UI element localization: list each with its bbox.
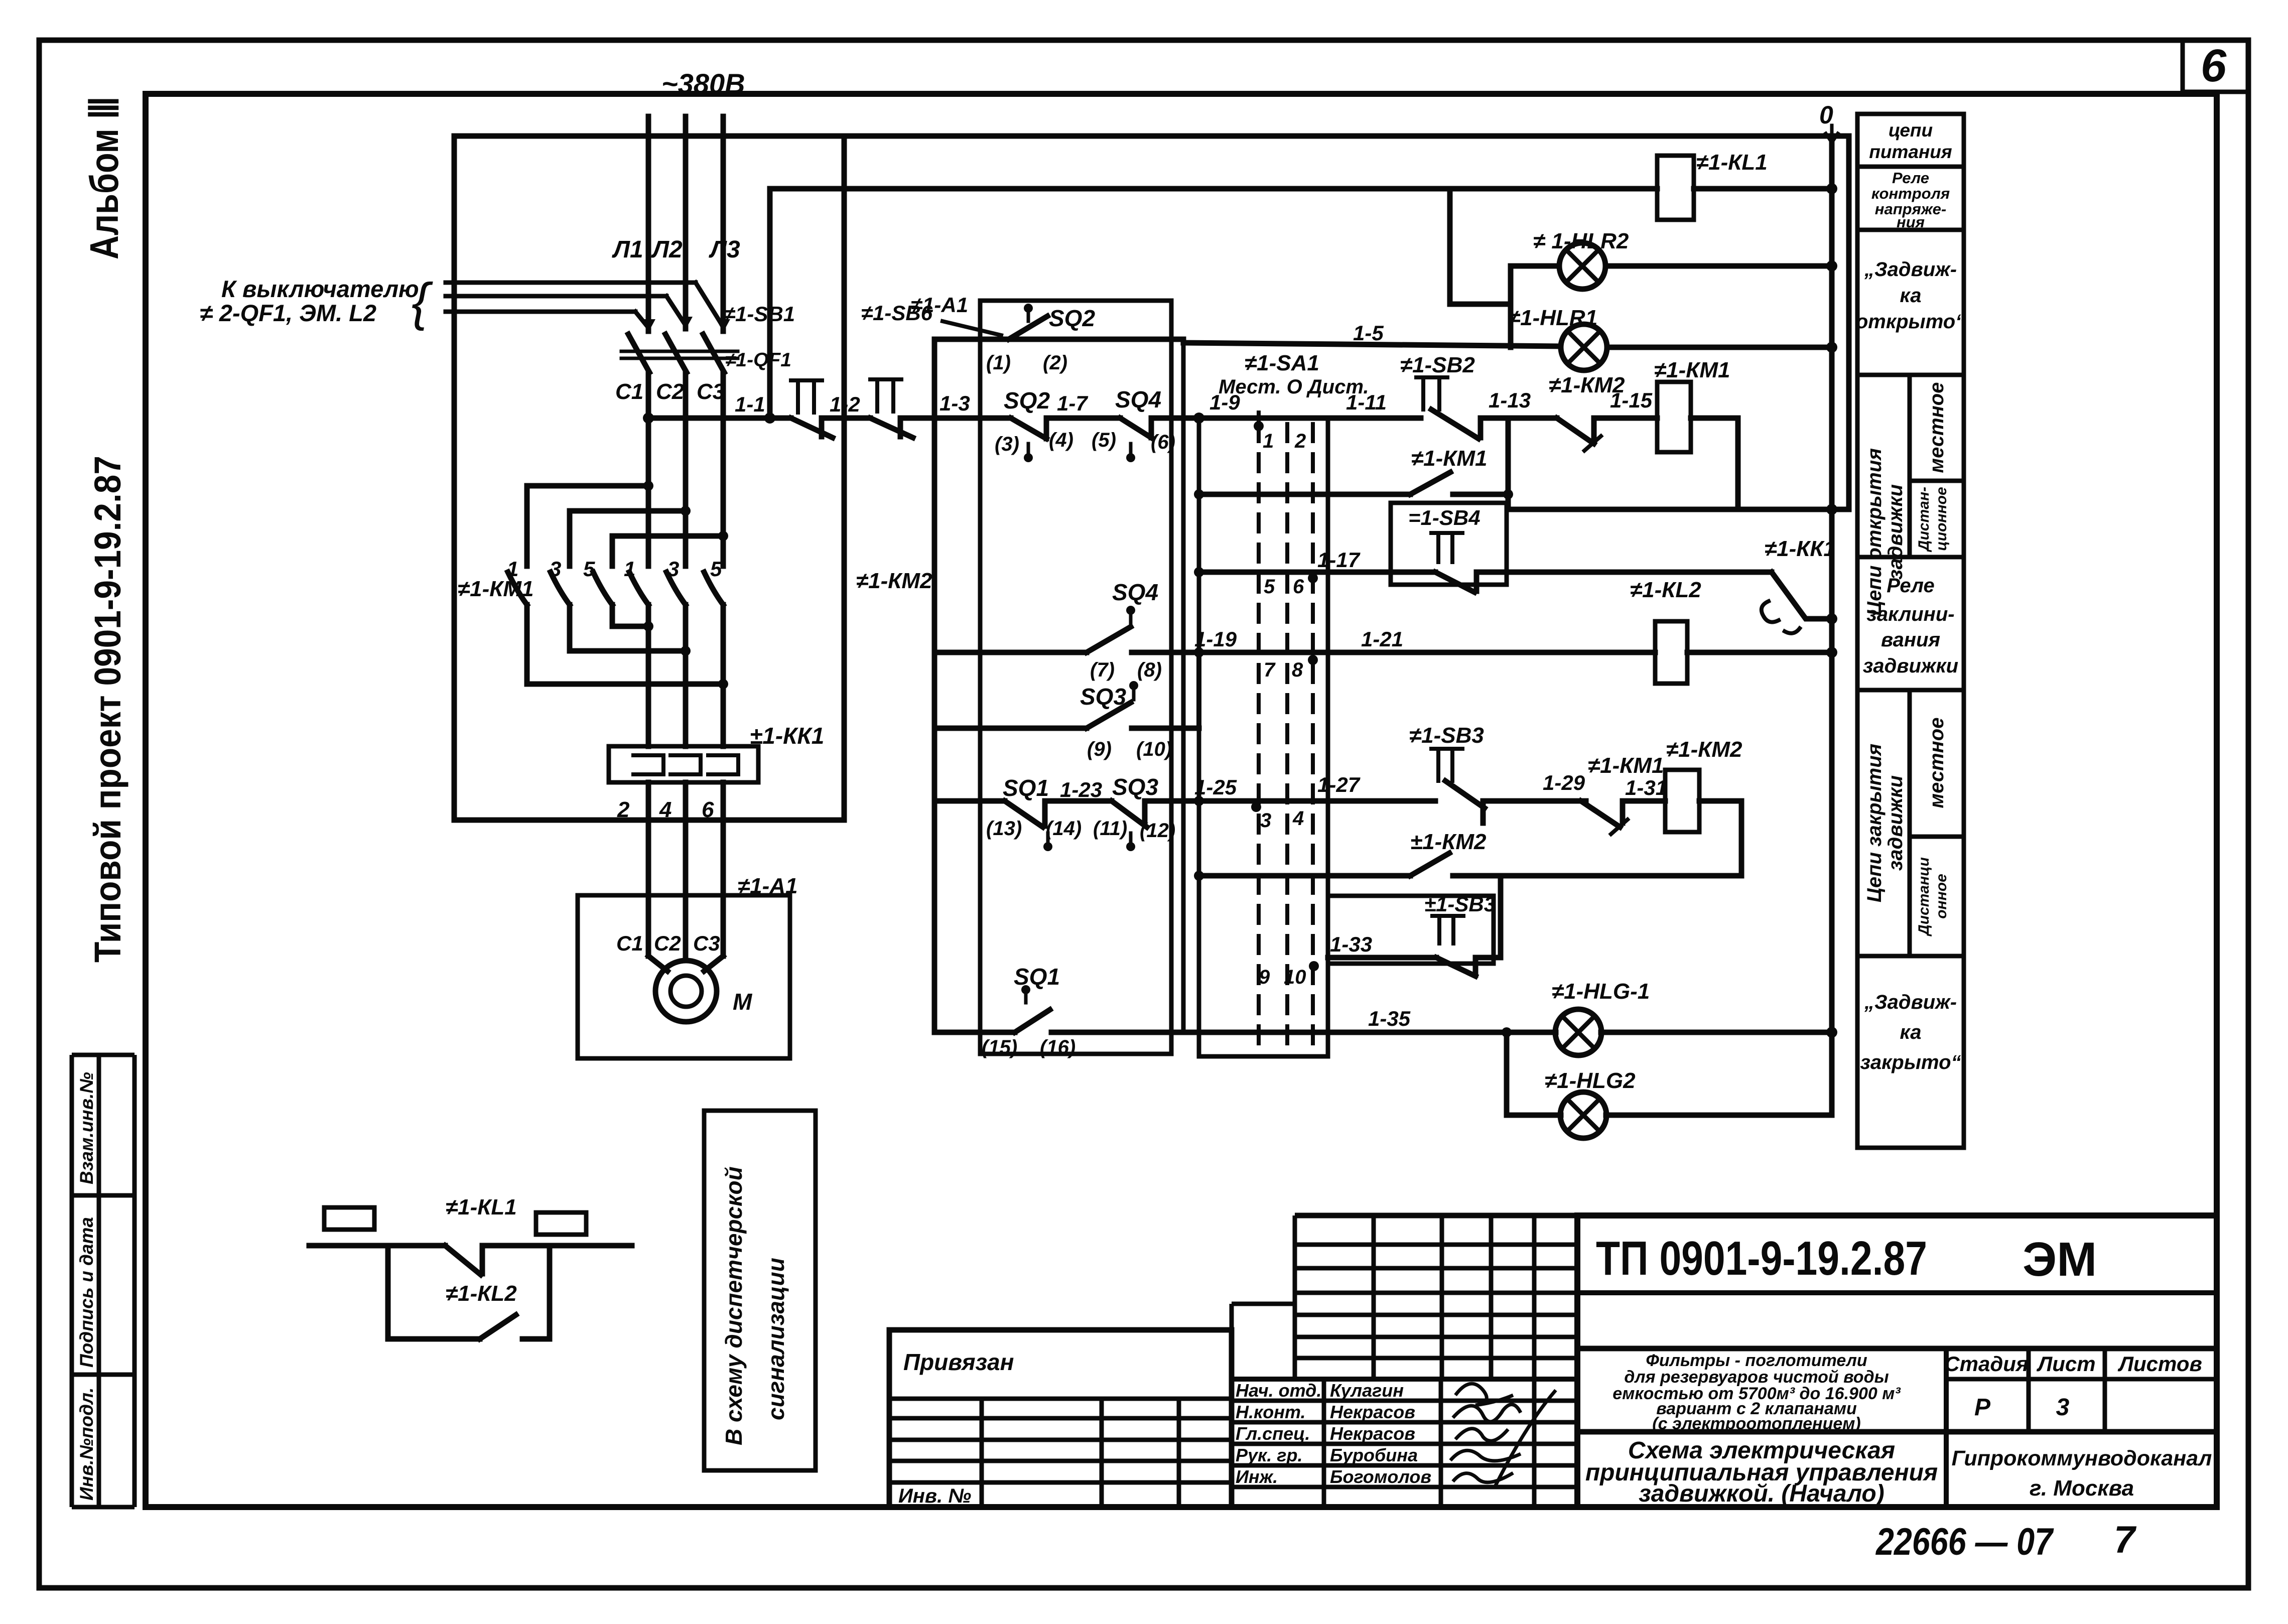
svg-text:≠1-SА1: ≠1-SА1 [1245,351,1319,375]
svg-text:±1-КМ2: ±1-КМ2 [1410,830,1487,854]
svg-text:(8): (8) [1137,659,1162,681]
svg-text:≠1-А1: ≠1-А1 [738,874,798,898]
svg-text:1-33: 1-33 [1330,932,1372,956]
svg-text:2: 2 [617,797,630,822]
svg-text:Л2: Л2 [651,236,683,263]
svg-text:Инв.№подл.: Инв.№подл. [76,1388,97,1501]
svg-text:С1: С1 [616,931,643,955]
svg-text:заклини-: заклини- [1866,603,1954,625]
svg-text:(5): (5) [1092,429,1116,451]
svg-text:ЭМ: ЭМ [2023,1233,2097,1286]
svg-text:Рук. гр.: Рук. гр. [1236,1445,1303,1465]
svg-text:(13): (13) [986,818,1022,840]
svg-text:Инж.: Инж. [1236,1466,1278,1487]
svg-text:(6): (6) [1151,431,1175,453]
svg-text:8: 8 [1292,659,1303,681]
svg-text:SQ1: SQ1 [1003,775,1049,801]
svg-text:С1: С1 [615,379,643,404]
svg-text:≠1-КL1: ≠1-КL1 [446,1195,517,1220]
svg-text:1-25: 1-25 [1194,775,1237,799]
svg-text:±1-КК1: ±1-КК1 [750,723,824,749]
svg-text:≠1-HLG-1: ≠1-HLG-1 [1552,979,1650,1004]
svg-text:≠1-QF1: ≠1-QF1 [725,349,791,371]
svg-text:1: 1 [1263,430,1274,452]
svg-text:≠1-SВ1: ≠1-SВ1 [724,302,795,326]
svg-text:Гл.спец.: Гл.спец. [1236,1423,1310,1444]
svg-text:Кулагин: Кулагин [1330,1380,1404,1401]
svg-text:Лист: Лист [2036,1352,2095,1376]
svg-text:С3: С3 [693,931,720,955]
svg-text:г. Москва: г. Москва [2030,1476,2134,1501]
svg-text:ка: ка [1900,285,1921,307]
svg-text:(14): (14) [1046,818,1082,840]
svg-text:9: 9 [1259,966,1270,988]
svg-text:местное: местное [1926,718,1948,808]
svg-text:1-27: 1-27 [1317,773,1361,796]
svg-text:Буробина: Буробина [1330,1445,1418,1465]
svg-text:5: 5 [710,557,722,581]
svg-text:(4): (4) [1049,429,1073,451]
svg-text:1-5: 1-5 [1353,321,1384,345]
svg-text:открыто“: открыто“ [1856,311,1965,333]
svg-text:(16): (16) [1040,1036,1075,1058]
svg-text:(2): (2) [1043,352,1067,374]
svg-text:SQ3: SQ3 [1080,684,1126,710]
svg-text:В схему диспетчерской: В схему диспетчерской [721,1166,747,1445]
svg-text:Нач. отд.: Нач. отд. [1236,1380,1321,1401]
svg-text:22666 — 07: 22666 — 07 [1875,1521,2054,1563]
svg-text:≠1-SВ6: ≠1-SВ6 [861,301,933,325]
svg-text:6: 6 [1293,576,1304,598]
svg-text:SQ3: SQ3 [1112,774,1158,800]
svg-text:(3): (3) [995,433,1019,455]
svg-text:Типовой проект 0901-9-19.2.87: Типовой проект 0901-9-19.2.87 [87,456,128,963]
svg-text:ТП 0901-9-19.2.87: ТП 0901-9-19.2.87 [1596,1232,1927,1285]
svg-text:Привязан: Привязан [903,1349,1014,1375]
svg-text:цепи: цепи [1889,120,1933,141]
svg-text:≠1-HLR1: ≠1-HLR1 [1508,306,1597,330]
svg-text:задвижки: задвижки [1885,484,1907,580]
svg-text:1-17: 1-17 [1317,548,1361,572]
svg-text:Л1: Л1 [612,236,643,263]
svg-text:Взам.инв.№: Взам.инв.№ [76,1072,97,1184]
svg-text:Дистанци: Дистанци [1916,857,1932,937]
svg-text:≠1-КМ1: ≠1-КМ1 [1411,446,1487,471]
svg-text:С3: С3 [697,379,725,404]
svg-text:≠ 1-HLR2: ≠ 1-HLR2 [1533,229,1629,253]
svg-text:1-13: 1-13 [1489,388,1531,412]
svg-text:„Задвиж-: „Задвиж- [1864,258,1957,281]
svg-text:местное: местное [1926,382,1948,473]
svg-text:SQ2: SQ2 [1049,305,1095,331]
svg-text:1-23: 1-23 [1060,778,1102,801]
svg-text:0: 0 [1819,101,1833,129]
svg-text:„Задвиж-: „Задвиж- [1864,991,1957,1013]
svg-text:≠1-КМ2: ≠1-КМ2 [1549,373,1625,397]
svg-text:С2: С2 [656,379,685,404]
svg-text:Некрасов: Некрасов [1330,1402,1415,1422]
svg-text:5: 5 [583,557,595,581]
svg-text:3: 3 [2056,1394,2070,1421]
svg-text:1-29: 1-29 [1543,771,1585,794]
svg-text:1-1: 1-1 [735,392,765,416]
svg-text:К выключателю: К выключателю [221,276,419,302]
svg-text:7: 7 [1264,659,1276,681]
svg-text:Л3: Л3 [709,236,740,263]
svg-text:SQ4: SQ4 [1115,386,1161,413]
svg-text:(с электроотоплением): (с электроотоплением) [1652,1414,1860,1433]
svg-text:Цепи закрытия: Цепи закрытия [1863,744,1886,902]
svg-text:(15): (15) [982,1036,1017,1058]
svg-text:Цепи открытия: Цепи открытия [1863,448,1886,616]
svg-text:≠1-HLG2: ≠1-HLG2 [1545,1068,1636,1093]
svg-text:4: 4 [1292,807,1304,830]
svg-text:Богомолов: Богомолов [1330,1466,1431,1487]
svg-text:1-31: 1-31 [1625,776,1667,799]
svg-text:≠ 2-QF1, ЭМ. L2: ≠ 2-QF1, ЭМ. L2 [200,300,376,326]
svg-text:закрыто“: закрыто“ [1860,1051,1961,1073]
svg-text:5: 5 [1264,576,1275,598]
svg-text:SQ4: SQ4 [1112,579,1158,605]
svg-text:6: 6 [702,797,714,822]
svg-text:М: М [733,989,753,1015]
svg-text:сигнализации: сигнализации [763,1258,789,1420]
svg-text:≠1-SВ2: ≠1-SВ2 [1400,353,1475,377]
svg-text:6: 6 [2201,40,2227,91]
svg-text:задвижкой. (Начало): задвижкой. (Начало) [1639,1480,1884,1507]
svg-text:Реле: Реле [1887,575,1935,597]
svg-text:Инв. №: Инв. № [898,1485,971,1507]
svg-text:Н.конт.: Н.конт. [1236,1402,1306,1422]
svg-text:онное: онное [1933,874,1950,919]
svg-text:Листов: Листов [2117,1352,2202,1376]
svg-text:≠1-КМ2: ≠1-КМ2 [1666,737,1742,762]
svg-text:4: 4 [659,797,671,822]
svg-text:≠1-КМ1: ≠1-КМ1 [458,577,533,601]
svg-text:ка: ка [1900,1021,1921,1043]
svg-text:Стадия: Стадия [1944,1352,2028,1376]
svg-text:3: 3 [1260,809,1271,832]
svg-text:(1): (1) [986,352,1011,374]
svg-text:10: 10 [1284,966,1306,988]
svg-text:≠1-КL2: ≠1-КL2 [446,1281,517,1306]
svg-text:~380В: ~380В [661,68,745,99]
svg-text:=1-SВ4: =1-SВ4 [1408,506,1481,529]
svg-text:(11): (11) [1093,818,1127,840]
svg-text:Подпись и дата: Подпись и дата [76,1217,97,1368]
svg-text:SQ1: SQ1 [1014,964,1060,990]
svg-text:контроля: контроля [1871,185,1950,202]
svg-text:3: 3 [667,557,679,581]
svg-text:задвижки: задвижки [1863,655,1958,677]
svg-text:ционное: ционное [1933,487,1950,551]
svg-text:SQ2: SQ2 [1004,387,1050,414]
svg-text:Дистан-: Дистан- [1916,487,1932,553]
svg-text:Альбом Ⅲ: Альбом Ⅲ [82,96,126,259]
svg-text:питания: питания [1869,142,1952,162]
svg-text:Р: Р [1974,1394,1991,1421]
svg-text:(7): (7) [1090,659,1115,681]
svg-text:≠1-КL2: ≠1-КL2 [1630,578,1701,602]
svg-text:1: 1 [507,557,518,581]
svg-text:Некрасов: Некрасов [1330,1423,1415,1444]
svg-text:Гипрокоммунводоканал: Гипрокоммунводоканал [1952,1446,2212,1470]
svg-text:≠1-КL1: ≠1-КL1 [1696,150,1768,175]
svg-text:1-3: 1-3 [939,391,970,415]
svg-text:1-21: 1-21 [1361,627,1403,651]
svg-text:ния: ния [1897,213,1925,231]
svg-text:2: 2 [1294,430,1306,452]
svg-text:≠1-КМ1: ≠1-КМ1 [1654,358,1730,382]
svg-text:3: 3 [550,557,561,581]
svg-text:(10): (10) [1136,738,1172,760]
svg-text:1-19: 1-19 [1194,627,1237,651]
svg-text:1: 1 [624,557,635,581]
svg-text:Реле: Реле [1892,169,1929,187]
svg-text:С2: С2 [654,931,681,955]
svg-text:7: 7 [2114,1519,2137,1561]
svg-text:(12): (12) [1140,820,1175,842]
svg-text:(9): (9) [1087,738,1112,760]
svg-text:±1-SВ3: ±1-SВ3 [1424,892,1496,916]
svg-text:1-35: 1-35 [1368,1007,1411,1030]
svg-text:≠1-КМ1: ≠1-КМ1 [1588,753,1664,778]
svg-text:≠1-КМ2: ≠1-КМ2 [856,569,932,593]
svg-text:1-2: 1-2 [830,392,860,416]
svg-text:вания: вания [1881,629,1940,651]
svg-text:≠1-КК1: ≠1-КК1 [1765,536,1836,561]
svg-text:1-7: 1-7 [1057,391,1088,415]
svg-text:≠1-SВ3: ≠1-SВ3 [1409,723,1484,748]
svg-text:задвижки: задвижки [1885,775,1907,871]
svg-text:Мест. О Дист.: Мест. О Дист. [1219,376,1369,398]
